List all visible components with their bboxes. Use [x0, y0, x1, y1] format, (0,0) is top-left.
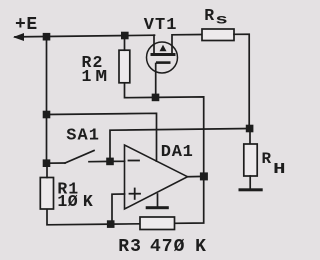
VT1 arrow	[160, 45, 167, 51]
node +E arrow	[13, 33, 24, 41]
node B junction R2 top	[121, 32, 129, 40]
wire VT1 source lead to Rs	[172, 35, 202, 54]
svg-text:R: R	[262, 150, 272, 168]
node C junction gate/R2	[152, 94, 160, 102]
wire output down to R3	[175, 176, 204, 223]
wire VT1 gate lead	[155, 64, 157, 98]
svg-text:M: M	[95, 67, 107, 86]
node I junction R1/R3/plus	[107, 220, 115, 228]
ground DA1	[146, 206, 169, 209]
wire R1 top lead	[46, 163, 48, 177]
wire E down to RH	[249, 129, 251, 145]
resistor R2	[119, 50, 130, 83]
wire left rail	[46, 37, 48, 164]
wire V+ supply to DA1	[47, 113, 157, 161]
resistor RH	[244, 144, 257, 176]
wire SA1 left	[47, 162, 66, 164]
DA1 ground stub	[157, 194, 159, 206]
svg-text:R3: R3	[118, 237, 142, 257]
switch SA1 blade	[65, 151, 94, 164]
wire sense B: H up and right to E	[110, 129, 250, 162]
svg-text:R: R	[204, 6, 214, 25]
resistor R1	[40, 178, 53, 210]
wire C to corner to DA1 output	[156, 97, 204, 176]
wire DA1 output	[188, 175, 204, 177]
wire R2 top lead	[124, 36, 126, 51]
svg-text:H: H	[273, 161, 285, 178]
node D junction output	[200, 172, 208, 180]
node A junction rail/top	[43, 33, 51, 41]
svg-text:DA1: DA1	[161, 143, 194, 162]
resistor R3	[140, 217, 175, 230]
VT1 channel bar	[151, 53, 176, 56]
node H junction minus input	[106, 158, 114, 166]
wire I to R3	[111, 223, 140, 225]
node F junction rail/V+	[43, 111, 51, 119]
wire VT1 drain lead	[153, 35, 155, 53]
wire +E top rail	[15, 35, 155, 37]
wire R1 bottom to I	[47, 210, 111, 225]
wire H to minus input	[110, 160, 125, 162]
transistor VT1 circle	[147, 42, 178, 73]
DA1 minus glyph	[129, 160, 140, 162]
wire Rs right down to node E	[234, 34, 249, 128]
svg-text:s: s	[215, 13, 228, 29]
wire RH bottom lead	[249, 176, 251, 188]
svg-text:K: K	[195, 237, 206, 257]
svg-text:+E: +E	[15, 15, 38, 35]
svg-text:K: K	[83, 192, 93, 211]
DA1 plus glyph	[130, 193, 141, 195]
wire R2 bottom lead	[125, 83, 156, 98]
wire plus input	[112, 194, 125, 224]
svg-text:47Ø: 47Ø	[150, 237, 185, 257]
op-amp DA1 triangle	[125, 145, 188, 209]
svg-text:1: 1	[82, 67, 92, 86]
svg-text:SA1: SA1	[66, 127, 100, 146]
node E junction Rs/RH	[246, 125, 254, 133]
resistor Rs	[202, 29, 234, 41]
ground RH	[239, 188, 263, 191]
VT1 gate bar	[156, 61, 171, 64]
svg-text:VT1: VT1	[144, 16, 178, 35]
svg-text:1Ø: 1Ø	[57, 192, 78, 211]
wire SA1 fixed contact	[89, 160, 110, 162]
node G junction rail/SA1	[43, 159, 51, 167]
